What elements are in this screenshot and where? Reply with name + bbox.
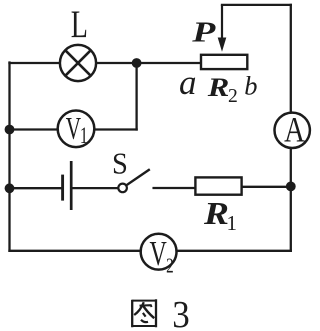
wire battery row left — [10, 187, 63, 189]
wire V1 row left — [10, 128, 58, 130]
wire switch to R1 — [154, 187, 196, 189]
svg-text:L: L — [71, 4, 88, 46]
caption 图 (drawn glyph) — [132, 299, 156, 327]
lamp L — [60, 45, 96, 81]
svg-text:b: b — [244, 70, 257, 100]
svg-text:A: A — [284, 110, 305, 150]
svg-text:1: 1 — [227, 211, 238, 235]
wire battery to switch — [71, 187, 118, 189]
wire V1 branch vertical — [135, 63, 137, 130]
rheostat R2 — [201, 55, 247, 69]
svg-text:R: R — [207, 74, 230, 103]
ammeter A — [275, 113, 310, 148]
voltmeter V2 — [141, 234, 177, 270]
wiper arrow P — [221, 5, 223, 40]
node dot (lamp row / V1 branch) — [132, 58, 142, 68]
wire right rail upper — [290, 5, 292, 113]
svg-text:2: 2 — [228, 86, 238, 107]
wire right rail lower — [290, 148, 292, 251]
svg-text:2: 2 — [166, 254, 174, 277]
svg-text:R: R — [203, 196, 229, 232]
svg-text:a: a — [179, 63, 197, 102]
svg-text:S: S — [112, 147, 128, 181]
wire left rail — [8, 63, 10, 251]
svg-text:1: 1 — [80, 123, 88, 148]
svg-text:V: V — [66, 110, 82, 145]
wire R1 to right rail — [242, 186, 291, 188]
node dot (right rail / R1 row) — [286, 182, 296, 192]
resistor R1 — [195, 177, 241, 194]
battery — [63, 161, 72, 210]
wire top row left (to lamp) — [10, 62, 60, 64]
wire bottom row right — [176, 250, 290, 252]
wire top (wiper to right rail) — [222, 4, 291, 6]
svg-text:V: V — [150, 235, 168, 274]
node dot (left rail / battery row) — [5, 183, 15, 193]
wire V1 row right — [94, 128, 136, 130]
svg-text:P: P — [191, 17, 216, 48]
wire bottom row left — [10, 250, 142, 252]
node dot (left rail / V1 row) — [5, 125, 15, 135]
voltmeter V1 — [58, 111, 95, 148]
wire lamp to R2 — [97, 62, 201, 64]
svg-text:3: 3 — [172, 293, 189, 331]
switch S — [118, 184, 127, 193]
